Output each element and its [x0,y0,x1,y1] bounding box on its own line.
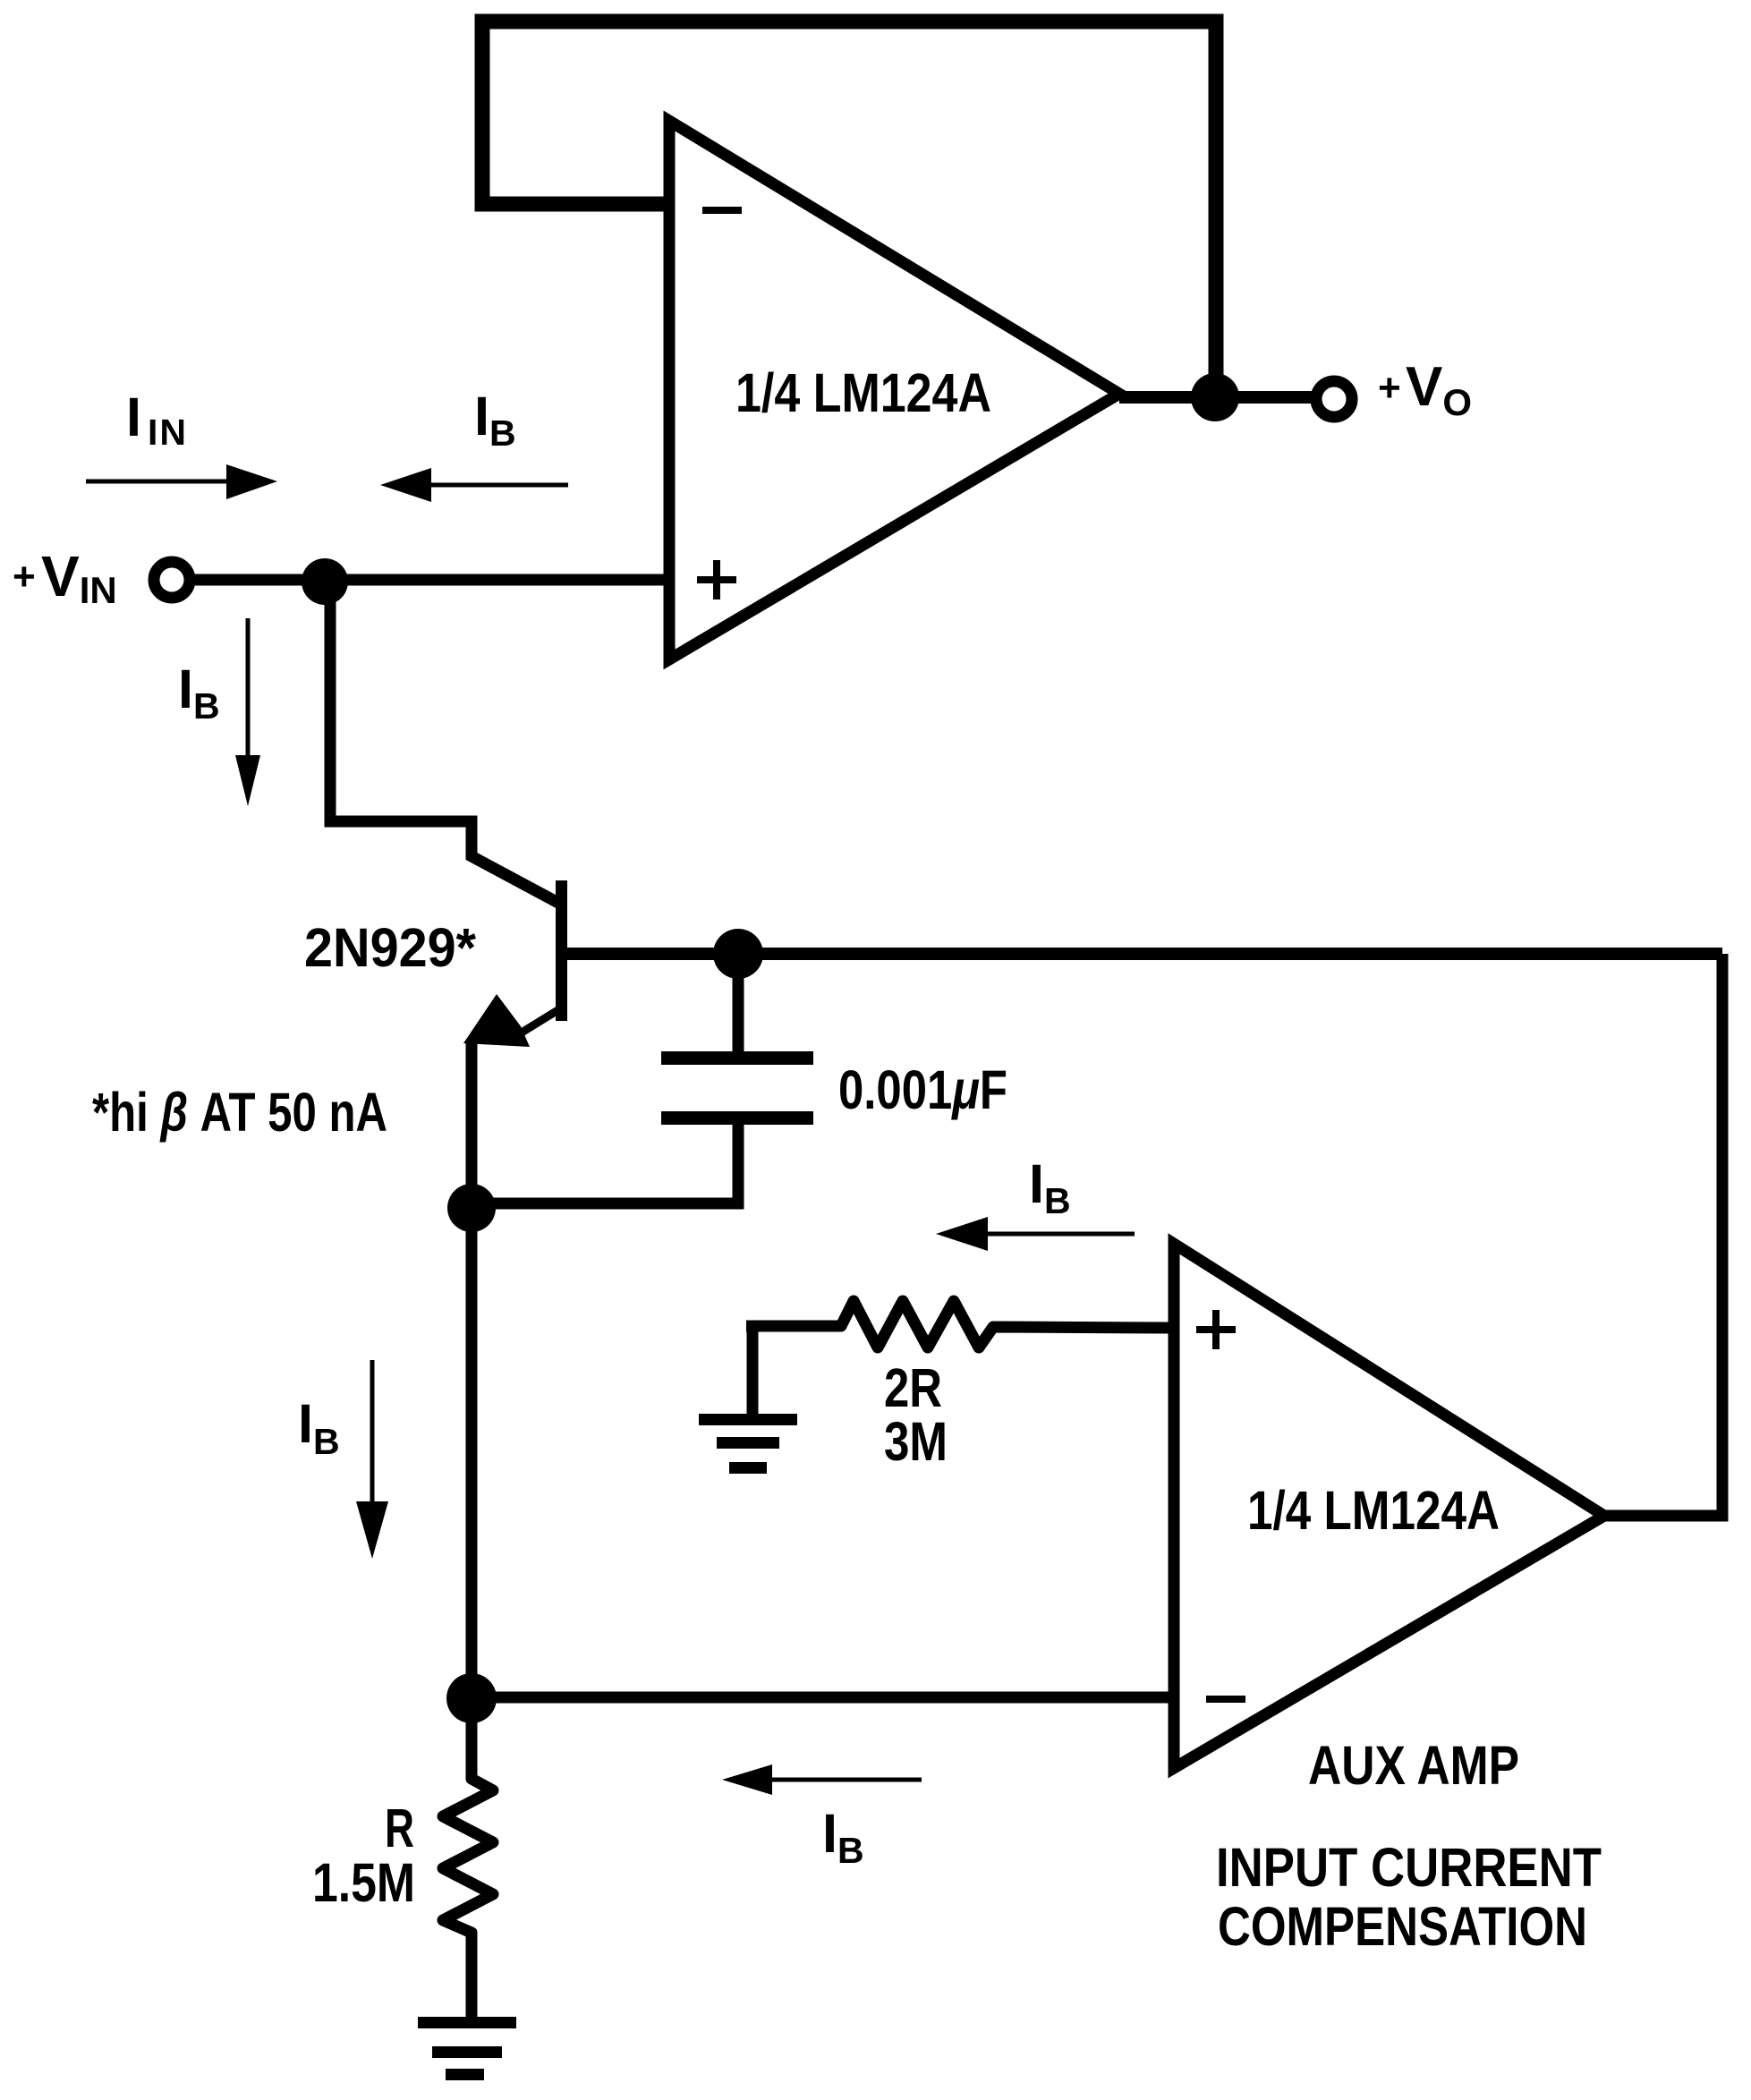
svg-text:R: R [385,1798,414,1858]
U1 non-inverting input plus sign [697,560,736,599]
arrow IB current (down) [235,618,260,806]
label 3M [884,1411,948,1472]
arrow IB current into U2 plus (left) [936,1217,1135,1251]
svg-text:IB: IB [474,386,516,454]
node output junction dot [1191,373,1239,421]
svg-text:IB: IB [178,659,220,727]
svg-text:+: + [13,555,36,599]
capacitor C1 bottom plate [661,1111,813,1125]
terminal +VIN open circle [154,562,190,598]
label IB (left vertical branch) [178,659,220,727]
node VIN junction dot [302,558,348,605]
label 1.5M [312,1852,415,1913]
capacitor C1 top lead [733,954,744,1051]
svg-text:2N929*: 2N929* [304,917,476,978]
U1 inverting input minus sign [702,207,742,214]
svg-text:IB: IB [1029,1153,1071,1221]
svg-text:IB: IB [298,1393,340,1462]
svg-text:0.001μF: 0.001μF [838,1059,1007,1120]
wire U1 output [1119,391,1315,404]
ground symbol G1 [699,1414,797,1474]
label +VIN [13,544,117,611]
svg-text:1/4 LM124A: 1/4 LM124A [1247,1480,1500,1541]
label IB (above 2R) [1029,1153,1071,1221]
svg-text:VO: VO [1406,356,1472,423]
svg-text:IB: IB [822,1803,864,1871]
terminal +VO open circle [1316,381,1352,417]
label 0.001uF [838,1059,1007,1120]
op-amp U1 triangle [669,121,1119,659]
label R [385,1798,414,1858]
U1 label 1/4 LM124A [735,362,991,423]
transistor Q1 emitter lead with arrow [463,994,564,1047]
svg-text:VIN: VIN [41,544,117,611]
node minus-input junction dot [446,1673,497,1723]
svg-text:AUX AMP: AUX AMP [1308,1735,1519,1796]
svg-text:*hi β AT 50 nA: *hi β AT 50 nA [92,1082,387,1143]
resistor R2 2R zigzag [746,1301,1169,1348]
wire right vertical from collector line down to aux output [1606,954,1722,1516]
label IB (top, into U1) [474,386,516,454]
arrow IIN current (right) [86,464,277,499]
label IIN [126,387,188,453]
U2 label 1/4 LM124A [1247,1480,1500,1541]
svg-text:1/4 LM124A: 1/4 LM124A [735,362,991,423]
arrow IB emitter current (down) [356,1360,388,1559]
wire C1 bottom lead to emitter node [472,1125,738,1203]
svg-text:INPUT CURRENT: INPUT CURRENT [1216,1837,1602,1898]
wire +VIN to U1 plus input [191,574,669,586]
wire VIN node down to Q1 base [330,582,558,903]
label IB (bottom, from U2 minus) [822,1803,864,1871]
label *hi beta AT 50 nA [92,1082,387,1143]
svg-text:COMPENSATION: COMPENSATION [1218,1896,1587,1957]
U2 inverting input minus sign [1206,1696,1245,1703]
transistor Q1 2N929 base bar [556,880,567,1021]
wire feedback loop of U1 (output to inverting input) [482,21,1216,397]
label 2N929* [304,917,476,978]
U2 non-inverting input plus sign [1196,1310,1236,1349]
node emitter-capacitor junction dot [447,1184,496,1232]
wire R2 to ground [747,1322,759,1419]
wire Q1 emitter down [466,1040,478,1698]
svg-text:1.5M: 1.5M [312,1852,415,1913]
label 2R [884,1357,942,1418]
label INPUT CURRENT [1216,1837,1602,1898]
svg-text:IIN: IIN [126,387,188,453]
ground symbol G2 [418,2017,516,2080]
resistor R1 R zigzag [443,1698,493,2017]
svg-text:3M: 3M [884,1411,948,1472]
arrow IB current bottom (left) [722,1764,922,1795]
wire Q1 collector line to right edge [564,948,1722,960]
wire U2 minus input from emitter node [472,1692,1169,1704]
label AUX AMP [1308,1735,1519,1796]
svg-text:+: + [1378,366,1401,410]
capacitor C1 top plate [661,1051,813,1065]
node collector junction dot [713,929,763,979]
label COMPENSATION [1218,1896,1587,1957]
label +VO [1378,356,1472,423]
svg-text:2R: 2R [884,1357,942,1418]
label IB (emitter branch) [298,1393,340,1462]
arrow IB current (left, from U1) [380,468,568,502]
op-amp U2 triangle (aux amp) [1174,1244,1604,1768]
